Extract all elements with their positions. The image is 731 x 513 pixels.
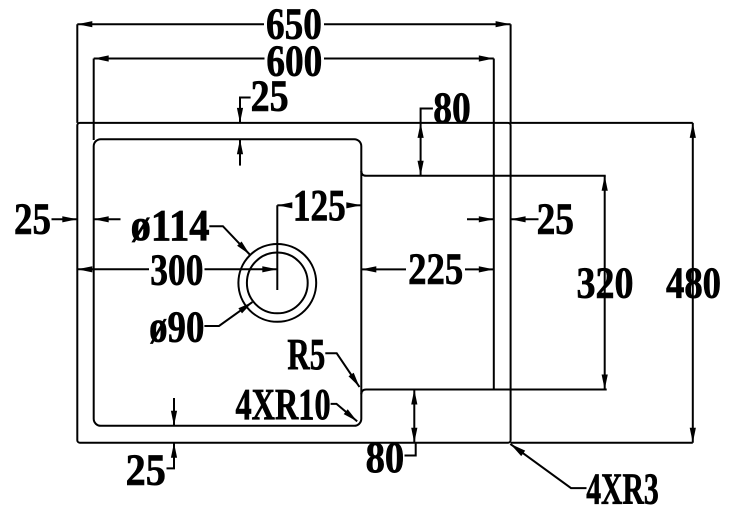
drain circle outer — [238, 244, 316, 322]
diagonal arrowheads — [237, 242, 250, 255]
drain circle inner — [247, 253, 308, 314]
left 25 dim lines — [52, 218, 78, 220]
svg-text:125: 125 — [293, 181, 346, 230]
bottom edge right extension to 480 dim — [511, 442, 693, 444]
svg-text:4XR10: 4XR10 — [236, 380, 331, 429]
225 dim line — [361, 268, 406, 270]
svg-text:ø90: ø90 — [149, 302, 204, 351]
650 dim line — [77, 23, 264, 25]
second rect top edge with R5 fillet — [361, 171, 605, 176]
svg-text:25: 25 — [537, 195, 574, 244]
svg-text:80: 80 — [366, 433, 405, 482]
svg-text:4XR3: 4XR3 — [586, 464, 659, 513]
top 80 leader — [421, 109, 433, 123]
dia114 leader — [209, 226, 249, 254]
svg-text:ø114: ø114 — [131, 201, 210, 250]
arrowheads — [77, 21, 92, 27]
outer rect 650x480 — [77, 123, 510, 443]
svg-text:25: 25 — [251, 71, 289, 120]
svg-text:300: 300 — [150, 245, 203, 294]
320 dim line — [604, 176, 606, 390]
svg-text:25: 25 — [14, 194, 51, 243]
svg-text:225: 225 — [408, 245, 463, 294]
4XR3 leader — [510, 444, 586, 488]
650 right extension — [510, 24, 512, 123]
600 dim line — [94, 58, 265, 60]
svg-text:R5: R5 — [287, 330, 325, 379]
4XR10 leader — [331, 404, 358, 422]
top 25 up-arrow line — [239, 139, 241, 165]
top edge right extension to 480 dim — [511, 122, 693, 124]
300 dim line — [77, 268, 149, 270]
basin rounded rect — [94, 139, 362, 426]
svg-text:480: 480 — [666, 258, 721, 307]
bottom 25 leader — [167, 443, 175, 469]
svg-text:320: 320 — [577, 258, 634, 307]
top 25 leader — [240, 98, 251, 123]
bottom 80 leader — [405, 443, 416, 456]
svg-text:80: 80 — [433, 83, 471, 132]
R5 leader — [325, 353, 359, 387]
svg-text:25: 25 — [126, 445, 166, 494]
650 left extension — [76, 24, 78, 123]
second rect bottom edge with R5 fillet — [361, 390, 606, 395]
600 left extension — [93, 59, 95, 141]
480 dim line — [692, 123, 694, 443]
125 center extension — [276, 205, 278, 290]
dia90 leader — [204, 302, 252, 326]
top 80 dim line — [420, 123, 422, 176]
bottom 25 down-arrow line — [173, 398, 175, 426]
right 25 dim lines — [467, 218, 494, 220]
second rect right edge + 600 right extension — [493, 59, 495, 390]
bottom 80 dim line — [413, 390, 415, 443]
125 dim line — [277, 204, 291, 206]
